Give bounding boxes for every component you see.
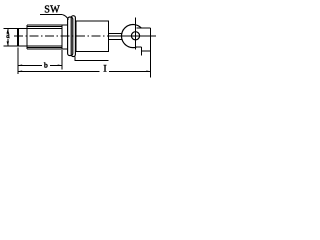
svg-text:b: b <box>44 60 48 69</box>
svg-text:SW: SW <box>44 5 60 16</box>
svg-text:a: a <box>6 30 10 41</box>
svg-text:I: I <box>103 64 106 75</box>
